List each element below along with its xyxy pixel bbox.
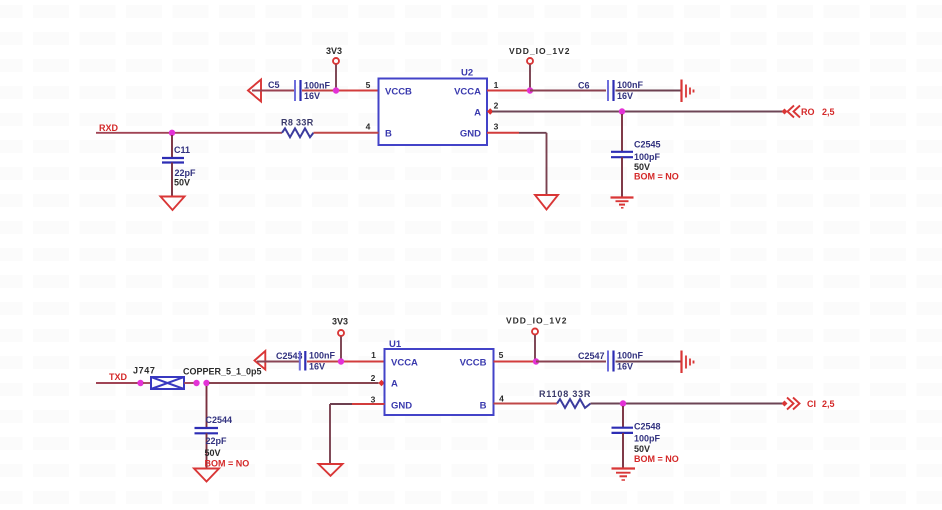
net connector CI chevrons bbox=[787, 398, 800, 410]
svg-text:C2548: C2548 bbox=[634, 422, 661, 432]
svg-text:C2544: C2544 bbox=[206, 415, 233, 425]
ground triangle (U1 GND) bbox=[319, 464, 343, 476]
svg-text:3: 3 bbox=[494, 122, 499, 132]
svg-text:VCCB: VCCB bbox=[460, 358, 487, 369]
svg-text:CI: CI bbox=[807, 399, 816, 409]
capacitor C2545 bbox=[611, 114, 679, 197]
svg-text:4: 4 bbox=[499, 394, 504, 404]
wire node to U2 pin 5 bbox=[336, 90, 379, 92]
resistor R8 bbox=[281, 118, 314, 138]
wire U2 pin1 to VDD node bbox=[487, 90, 530, 92]
junction CI/C2548 bbox=[620, 400, 626, 406]
svg-text:50V: 50V bbox=[205, 448, 221, 458]
svg-text:2,5: 2,5 bbox=[822, 399, 835, 409]
junction VDD/C2547 bbox=[533, 358, 539, 364]
svg-text:100pF: 100pF bbox=[634, 152, 661, 162]
capacitor C11 bbox=[162, 135, 196, 196]
svg-text:COPPER_5_1_0p5: COPPER_5_1_0p5 bbox=[183, 367, 262, 377]
wire C2547 to earth bbox=[616, 361, 682, 363]
svg-text:TXD: TXD bbox=[109, 372, 128, 382]
jumper J747 bbox=[133, 366, 196, 390]
svg-text:C5: C5 bbox=[268, 80, 280, 90]
wire off-page to C5 bbox=[252, 90, 294, 92]
svg-text:GND: GND bbox=[391, 401, 412, 412]
wire net CI bbox=[591, 403, 784, 405]
svg-text:100nF: 100nF bbox=[617, 80, 644, 90]
svg-text:VCCA: VCCA bbox=[391, 358, 418, 369]
svg-text:A: A bbox=[474, 108, 481, 119]
power symbol 3V3 (bottom) bbox=[332, 317, 348, 337]
svg-text:C11: C11 bbox=[174, 145, 190, 155]
svg-text:BOM = NO: BOM = NO bbox=[634, 172, 679, 182]
svg-text:B: B bbox=[385, 129, 392, 140]
svg-text:VCCA: VCCA bbox=[454, 87, 481, 98]
svg-text:U1: U1 bbox=[389, 339, 402, 350]
earth ground (C2545) bbox=[611, 198, 634, 208]
net end diamond RO bbox=[782, 109, 788, 115]
wire to U1 pin2 bbox=[209, 382, 379, 384]
capacitor C5 bbox=[268, 80, 331, 101]
svg-text:100nF: 100nF bbox=[309, 351, 336, 361]
svg-text:VDD_IO_1V2: VDD_IO_1V2 bbox=[509, 46, 571, 56]
junction VDD/C6 bbox=[527, 87, 533, 93]
wire RXD bbox=[96, 132, 282, 134]
ground triangle (C2544) bbox=[194, 469, 219, 482]
svg-text:J747: J747 bbox=[133, 366, 155, 376]
svg-text:22pF: 22pF bbox=[175, 168, 197, 178]
wire VDD drop (bottom) bbox=[534, 335, 536, 360]
svg-text:C6: C6 bbox=[578, 81, 590, 91]
svg-text:100pF: 100pF bbox=[634, 434, 661, 444]
svg-text:2: 2 bbox=[494, 101, 499, 111]
earth ground (rotated, C2547) bbox=[682, 351, 694, 374]
wire C2543 to 3V3 node bbox=[307, 361, 341, 363]
resistor R1108 bbox=[539, 389, 591, 408]
junction RO/C2545 bbox=[619, 108, 625, 114]
capacitor C2547 bbox=[578, 351, 644, 372]
ground triangle (C11) bbox=[161, 197, 185, 211]
svg-text:16V: 16V bbox=[309, 362, 325, 372]
svg-text:RXD: RXD bbox=[99, 123, 119, 133]
svg-text:2: 2 bbox=[371, 373, 376, 383]
svg-text:5: 5 bbox=[499, 350, 504, 360]
earth ground (C2548) bbox=[612, 469, 636, 481]
junction RXD/C11 bbox=[169, 130, 175, 136]
power symbol VDD_IO_1V2 (bottom) bbox=[506, 316, 568, 335]
svg-text:1: 1 bbox=[371, 350, 376, 360]
svg-text:2,5: 2,5 bbox=[822, 107, 835, 117]
svg-text:3V3: 3V3 bbox=[326, 46, 342, 56]
svg-text:100nF: 100nF bbox=[617, 351, 644, 361]
capacitor C2544 bbox=[195, 386, 250, 469]
wire U1 pin4 to R1108 bbox=[494, 403, 558, 405]
capacitor C2548 bbox=[612, 406, 679, 468]
svg-text:100nF: 100nF bbox=[304, 81, 331, 91]
svg-text:22pF: 22pF bbox=[206, 436, 228, 446]
svg-text:B: B bbox=[480, 401, 487, 412]
IC U1 bbox=[385, 339, 494, 415]
wire VDD node to C6 bbox=[530, 90, 606, 92]
junction J747 out bbox=[193, 380, 199, 386]
svg-text:R1108 33R: R1108 33R bbox=[539, 389, 591, 399]
off-page connector (C2543 rail) bbox=[255, 351, 266, 370]
wire TXD bbox=[96, 382, 140, 384]
svg-text:BOM = NO: BOM = NO bbox=[634, 454, 679, 464]
svg-text:R8 33R: R8 33R bbox=[281, 118, 314, 128]
svg-text:5: 5 bbox=[366, 80, 371, 90]
pin 2 connection diamond (U1 A) bbox=[378, 380, 384, 386]
wire VDD node to C2547 bbox=[536, 361, 606, 363]
svg-text:GND: GND bbox=[460, 129, 481, 140]
svg-text:3V3: 3V3 bbox=[332, 317, 348, 327]
net end diamond CI bbox=[782, 401, 788, 407]
junction 3V3/C5 bbox=[333, 87, 339, 93]
net connector RO chevrons bbox=[788, 106, 801, 118]
svg-text:BOM = NO: BOM = NO bbox=[205, 459, 250, 469]
wire net RO bbox=[492, 111, 783, 113]
power symbol 3V3 (top) bbox=[326, 46, 342, 64]
svg-text:VCCB: VCCB bbox=[385, 87, 412, 98]
ground triangle (U2 GND) bbox=[535, 195, 558, 210]
svg-text:C2547: C2547 bbox=[578, 351, 605, 361]
svg-text:C2545: C2545 bbox=[634, 140, 661, 150]
svg-text:50V: 50V bbox=[634, 162, 650, 172]
off-page connector (C5 rail) bbox=[248, 80, 261, 102]
wire off-page to C2543 bbox=[257, 361, 299, 363]
svg-text:16V: 16V bbox=[304, 91, 320, 101]
svg-text:U2: U2 bbox=[461, 68, 473, 79]
earth ground (rotated, C6) bbox=[682, 80, 694, 103]
svg-text:C2543: C2543 bbox=[276, 351, 303, 361]
junction C2544 tap bbox=[203, 380, 209, 386]
svg-text:RO: RO bbox=[801, 107, 815, 117]
pin 2 connection diamond (U2 A) bbox=[487, 108, 493, 114]
svg-text:50V: 50V bbox=[634, 444, 650, 454]
svg-text:16V: 16V bbox=[617, 91, 633, 101]
wire U2 pin3 to ground bbox=[487, 132, 519, 134]
IC U2 bbox=[379, 68, 488, 146]
wire VDD drop bbox=[529, 65, 531, 90]
wire 3V3 drop (bottom) bbox=[340, 337, 342, 361]
svg-text:16V: 16V bbox=[617, 362, 633, 372]
svg-text:1: 1 bbox=[494, 80, 499, 90]
svg-text:4: 4 bbox=[366, 122, 371, 132]
wire U1 pin5 to VDD node bbox=[494, 361, 537, 363]
capacitor C6 bbox=[578, 80, 644, 101]
junction 3V3/C2543 bbox=[338, 358, 344, 364]
svg-text:A: A bbox=[391, 379, 398, 390]
junction TXD/J747 bbox=[137, 380, 143, 386]
wire U1 pin3 to ground bbox=[352, 403, 385, 405]
capacitor C2543 bbox=[276, 351, 336, 372]
wire C6 to earth bbox=[616, 90, 682, 92]
svg-text:50V: 50V bbox=[174, 178, 190, 188]
wire 3V3 drop bbox=[335, 65, 337, 90]
wire R8 to U2 pin4 bbox=[314, 132, 379, 134]
svg-text:VDD_IO_1V2: VDD_IO_1V2 bbox=[506, 316, 568, 326]
power symbol VDD_IO_1V2 (top) bbox=[509, 46, 571, 64]
wire node to U1 pin1 bbox=[341, 361, 385, 363]
wire C5 to 3V3 node bbox=[302, 90, 336, 92]
